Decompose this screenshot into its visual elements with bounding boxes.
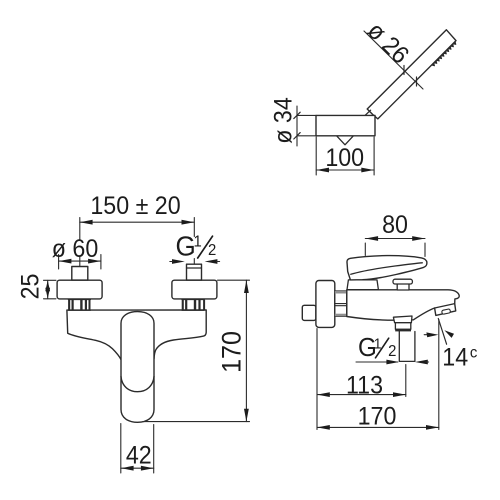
left cap (72, 267, 88, 281)
dim 100 extension left (315, 137, 317, 175)
dim 80 ext lines (365, 243, 425, 257)
right cap (187, 264, 202, 280)
arrow 113 right (393, 392, 406, 397)
arrow 113 left (317, 392, 330, 397)
left escutcheon (57, 280, 102, 299)
arrow 170 front bottom (244, 409, 249, 422)
svg-text:113: 113 (346, 372, 383, 400)
dim line dia26 (364, 31, 423, 89)
outlet shoulder band (395, 329, 411, 332)
arrow 170 side left (317, 425, 330, 430)
holder clip notch (365, 110, 370, 115)
shower handle rod (367, 30, 456, 119)
spout capsule (121, 312, 154, 423)
tick dia26 b (416, 77, 418, 86)
front body (67, 310, 206, 360)
left nut (68, 300, 90, 311)
holder hook diamond (337, 127, 354, 145)
svg-text:25: 25 (17, 274, 45, 300)
spout tip underside line (435, 304, 455, 308)
rod grip serration (432, 41, 456, 66)
right cap collar line (187, 267, 202, 269)
arrow 14 deg on slant (444, 330, 454, 338)
dim line 170 side (317, 426, 439, 428)
dim 170 front ext top (218, 279, 250, 281)
svg-text:150 ± 20: 150 ± 20 (90, 192, 180, 220)
cartridge collar (347, 280, 378, 290)
svg-text:2: 2 (388, 343, 396, 361)
diverter knob stem (397, 283, 409, 290)
arrow 170 front top (244, 280, 249, 293)
svg-text:ø 60: ø 60 (52, 235, 98, 263)
svg-text:2: 2 (208, 241, 216, 259)
svg-text:1: 1 (193, 233, 201, 251)
arrow G half side right (415, 360, 428, 365)
svg-text:c: c (470, 344, 478, 362)
tick dia26 a (403, 66, 405, 75)
arrow 42 right (141, 466, 154, 471)
tick dia34 a (294, 112, 300, 118)
arrow 170 side right (426, 425, 439, 430)
label G half side (358, 333, 396, 362)
svg-text:100: 100 (325, 144, 364, 172)
dim line 42 (121, 467, 154, 469)
G half side leader line (356, 361, 398, 363)
diverter knob cap (393, 279, 412, 284)
dim line 80 (365, 238, 425, 240)
dim dia60 ext stubs (59, 255, 101, 270)
dim 150 ext right (193, 218, 195, 265)
svg-text:ø 26: ø 26 (362, 17, 415, 70)
dim line 150 (80, 221, 195, 223)
dim line 170 front (245, 280, 247, 421)
dim 100 extension right (373, 137, 375, 175)
right nut (182, 300, 204, 311)
arrow G half front left (172, 259, 185, 264)
svg-text:ø 34: ø 34 (270, 97, 298, 143)
holder body rectangle (316, 115, 375, 135)
aerator screen (442, 309, 451, 315)
spout outlet step1 (393, 316, 412, 323)
handle bottom U arc (121, 377, 154, 392)
svg-text:170: 170 (358, 403, 397, 431)
handle lever (347, 256, 427, 280)
arrow dia60 left (59, 259, 72, 264)
arrow 100 right (361, 168, 374, 173)
side body (347, 290, 459, 320)
svg-text:80: 80 (382, 211, 408, 239)
arrow 100 left (316, 168, 329, 173)
arrow 14 deg horizontal (424, 334, 428, 336)
side hex nut (335, 291, 347, 316)
arrow 150 left (80, 220, 93, 225)
dim 14 deg slant line (438, 319, 446, 345)
right escutcheon (172, 280, 217, 299)
dim 170 front ext bottom (143, 421, 250, 423)
arrow 80 right (412, 236, 425, 241)
dim line 113 (317, 394, 406, 396)
arrow G half side left (386, 360, 399, 365)
svg-text:170: 170 (216, 331, 247, 373)
arrow dia60 right (88, 259, 101, 264)
dim dia34 extension top (297, 114, 316, 116)
dim dia34 extension bottom (297, 135, 316, 137)
dim 42 ext lines (121, 424, 154, 474)
label G half front (175, 231, 216, 262)
shower hose nipple pipe (399, 331, 415, 362)
svg-text:42: 42 (126, 442, 152, 470)
tick dia34 b (294, 133, 300, 139)
lever inner crease (351, 263, 423, 275)
dim line dia60 (59, 260, 101, 262)
spout outlet step2 (395, 323, 410, 330)
svg-text:14: 14 (442, 344, 468, 372)
arrow 150 right (182, 220, 195, 225)
dim line 100 (316, 169, 374, 171)
dim 113 ext line (405, 365, 407, 397)
arrow G half front right (205, 259, 218, 264)
arrow 80 left (365, 236, 378, 241)
wall plate (316, 281, 335, 328)
dim line 25 double arrow (47, 280, 49, 298)
dim 150 ext left (79, 218, 81, 267)
dim 170 side ext left (316, 329, 318, 430)
arrow 42 left (121, 466, 134, 471)
wall square fitting (302, 305, 316, 320)
dim line dia34 (296, 106, 298, 146)
dim 25 ext lines (44, 280, 57, 299)
dim 170 side ext right (438, 320, 440, 430)
